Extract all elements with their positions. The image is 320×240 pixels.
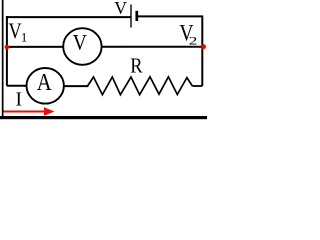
wire: conductor from ammeter to resistor bbox=[64, 85, 88, 87]
wire: voltmeter branch from node V1 to node V2 bbox=[7, 46, 202, 48]
resistor R: zigzag element bbox=[88, 77, 193, 95]
current arrow I: red direction arrow bbox=[4, 107, 55, 116]
svg-text:R: R bbox=[130, 54, 143, 78]
battery V bbox=[131, 5, 137, 28]
wire: left vertical branch from top wire down through node V1 to bottom wire bbox=[6, 16, 8, 86]
node V2: junction dot bbox=[201, 44, 206, 49]
svg-text:2: 2 bbox=[189, 35, 198, 48]
svg-text:A: A bbox=[37, 69, 52, 96]
svg-text:V: V bbox=[73, 30, 87, 55]
wire: top conductor, battery right plate to top-right corner bbox=[137, 15, 202, 17]
svg-text:1: 1 bbox=[21, 30, 27, 44]
wire: right vertical conductor through node V2 up to top wire bbox=[201, 16, 203, 87]
wire: resistor right end to bottom-right corner bbox=[192, 85, 202, 87]
node V1: junction dot bbox=[5, 45, 10, 50]
svg-text:V: V bbox=[114, 0, 127, 18]
ammeter U-A: circle meter bbox=[27, 68, 64, 104]
wire: top conductor, V1 branch corner to battery left plate bbox=[7, 16, 131, 18]
svg-text:I: I bbox=[16, 90, 23, 111]
wire: bottom conductor from lower-left corner to ammeter bbox=[7, 85, 27, 87]
svg-text:V: V bbox=[9, 18, 22, 43]
voltmeter U-V: circle meter bbox=[63, 28, 101, 65]
